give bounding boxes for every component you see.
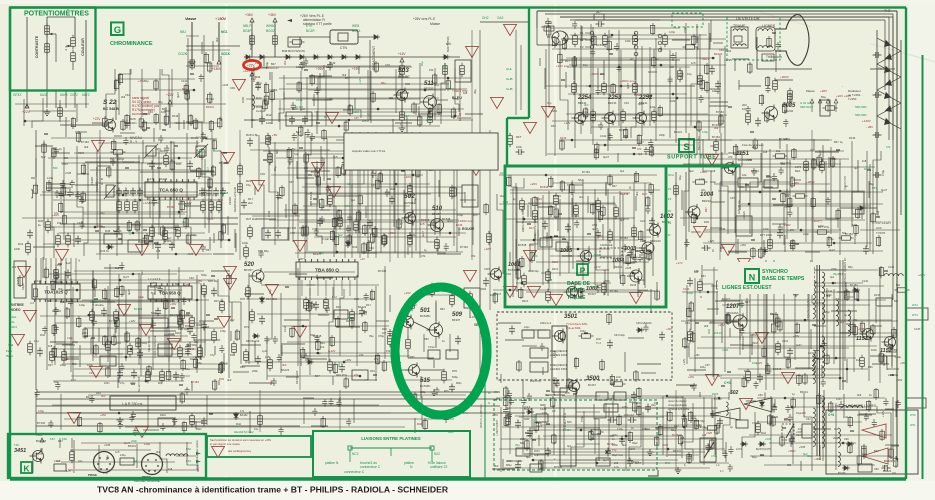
capacitor top row a bbox=[596, 21, 605, 27]
wire 509 col bbox=[435, 300, 437, 323]
cluster S frame bottom bbox=[594, 127, 654, 160]
svg-text:SELECT 50/5: SELECT 50/5 bbox=[138, 376, 141, 392]
svg-text:68µ: 68µ bbox=[158, 382, 163, 385]
cluster F pass2 bbox=[255, 129, 472, 254]
triangle tp23 bbox=[18, 266, 31, 277]
capacitor right of TBA a bbox=[211, 288, 217, 297]
box J low bbox=[352, 370, 368, 380]
svg-text:WHBO: WHBO bbox=[266, 24, 276, 28]
resistor 1004 col bbox=[674, 183, 679, 198]
wire vertical bus x298 bbox=[297, 132, 299, 258]
capacitor O frame bbox=[882, 465, 891, 471]
green support-tube vertical overlay bbox=[528, 8, 530, 119]
svg-text:0µ47: 0µ47 bbox=[603, 155, 610, 159]
wire vertical bus x345 bbox=[344, 132, 346, 258]
wire right of P frame bbox=[675, 172, 677, 260]
svg-text:P: P bbox=[580, 266, 586, 276]
resistor I low b bbox=[62, 349, 67, 364]
wire bus y218 bbox=[100, 217, 238, 219]
wire right bundle line 1 bbox=[896, 11, 898, 460]
svg-text:1µF: 1µF bbox=[66, 261, 71, 265]
inductor flyback winding 3 bbox=[822, 396, 825, 448]
wire couleur right bbox=[85, 20, 87, 90]
resistor right col b bbox=[788, 88, 793, 103]
wire mesh center F bbox=[259, 135, 473, 257]
svg-text:470µ: 470µ bbox=[453, 97, 459, 101]
svg-text:6A3X: 6A3X bbox=[40, 93, 49, 97]
svg-text:R136: R136 bbox=[203, 325, 210, 329]
svg-text:+12V: +12V bbox=[564, 121, 571, 125]
svg-text:ZERO: ZERO bbox=[90, 176, 94, 185]
capacitor N right b bbox=[645, 404, 651, 413]
svg-text:BY184: BY184 bbox=[460, 245, 468, 249]
svg-text:R44: R44 bbox=[645, 427, 650, 431]
svg-text:C204: C204 bbox=[269, 88, 276, 92]
green frame K magnetoscope box bbox=[8, 434, 206, 478]
svg-text:GA2: GA2 bbox=[497, 16, 504, 20]
wire W5 bbox=[240, 45, 480, 47]
svg-text:C97: C97 bbox=[806, 418, 811, 421]
svg-text:R17: R17 bbox=[565, 59, 570, 63]
out tri 1 bbox=[862, 424, 886, 438]
green border left line bbox=[9, 8, 11, 480]
resistor left col c bbox=[66, 233, 71, 248]
value label cluster zone 2 bbox=[260, 130, 478, 258]
wire long bus y392 bbox=[36, 391, 500, 393]
box 12µs b bbox=[538, 330, 550, 338]
svg-text:39µ: 39µ bbox=[515, 443, 520, 447]
box 2k2 K frame bbox=[54, 464, 66, 471]
svg-text:+26V vers PL.E: +26V vers PL.E bbox=[413, 17, 435, 21]
svg-text:unifilaire 22: unifilaire 22 bbox=[430, 465, 447, 469]
resistor IC left x127 bbox=[125, 199, 130, 214]
wire from CTN bbox=[358, 36, 372, 38]
resistor P frame x598 bbox=[596, 198, 601, 213]
wire W2 bbox=[75, 16, 86, 18]
junction 509 base bbox=[435, 329, 437, 331]
svg-text:BC548: BC548 bbox=[773, 367, 782, 371]
dashed switch box O bbox=[782, 424, 794, 440]
transistor 1004 right bbox=[627, 268, 642, 284]
cluster density A2 bbox=[118, 39, 213, 131]
inductor K frame out bbox=[166, 454, 188, 456]
svg-text:+36V: +36V bbox=[344, 204, 350, 208]
svg-text:22n: 22n bbox=[810, 148, 815, 152]
capacitor 2085 bbox=[755, 118, 761, 127]
capacitor 3501 right bbox=[659, 332, 665, 341]
triangle tp41 bbox=[738, 258, 751, 269]
svg-text:3k3: 3k3 bbox=[834, 427, 839, 431]
box R110 bbox=[158, 418, 174, 426]
wire IC pin drop x180 bbox=[179, 197, 181, 218]
green liaison drop left bbox=[349, 450, 351, 462]
svg-text:+5V8: +5V8 bbox=[187, 252, 194, 256]
capacitor relief bbox=[137, 350, 143, 359]
svg-text:220p: 220p bbox=[659, 133, 665, 137]
resistor video out x635 bbox=[633, 33, 638, 48]
svg-text:BY184: BY184 bbox=[716, 110, 724, 114]
svg-text:2017: 2017 bbox=[596, 338, 602, 341]
wire bus y120 tile B bbox=[244, 119, 420, 121]
green frame support-tube vertical 2 bbox=[506, 118, 508, 166]
svg-text:BD131: BD131 bbox=[313, 252, 321, 256]
capacitor N right a bbox=[631, 392, 637, 401]
svg-text:B47: B47 bbox=[117, 181, 122, 185]
svg-text:R03: R03 bbox=[707, 329, 711, 334]
resistor right of TBA a bbox=[202, 283, 207, 298]
svg-text:COULEUR: COULEUR bbox=[81, 38, 85, 56]
resistor below IC c bbox=[176, 225, 181, 240]
resistor F mid d bbox=[382, 233, 387, 248]
svg-text:1µ: 1µ bbox=[513, 197, 516, 201]
transistor S22 BC548B bbox=[102, 118, 116, 133]
svg-text:K3: K3 bbox=[580, 45, 584, 49]
DIN pin magnetophone bbox=[148, 470, 150, 472]
green box G redraw bbox=[111, 22, 124, 35]
svg-text:560: 560 bbox=[567, 420, 572, 424]
diode supply row x344 bbox=[340, 55, 348, 60]
cluster below TCA650 bbox=[118, 216, 236, 259]
capacitor I a bbox=[65, 270, 71, 279]
svg-text:120µ: 120µ bbox=[650, 105, 656, 109]
FREQUENCE LIGNES 625L box bbox=[530, 362, 548, 372]
svg-text:47k: 47k bbox=[728, 155, 733, 159]
svg-text:303F: 303F bbox=[524, 418, 530, 421]
wire GH2 bus bbox=[480, 21, 530, 23]
capacitor in filter F b bbox=[275, 230, 281, 239]
resistor video out x605 bbox=[603, 33, 608, 48]
svg-text:R67: R67 bbox=[639, 140, 644, 144]
resistor 1151 base bbox=[714, 139, 719, 154]
svg-text:47k: 47k bbox=[886, 145, 891, 149]
svg-text:R204: R204 bbox=[709, 87, 716, 91]
resistor h mid a bbox=[804, 159, 809, 174]
wire W1 bbox=[27, 16, 47, 18]
svg-text:1k8: 1k8 bbox=[862, 159, 867, 163]
svg-text:BC558B: BC558B bbox=[738, 158, 749, 162]
svg-text:+12V: +12V bbox=[724, 58, 731, 62]
svg-text:R17: R17 bbox=[251, 77, 256, 81]
blank patch top of tile A bbox=[98, 10, 220, 23]
svg-text:3451: 3451 bbox=[14, 448, 26, 454]
green liaison drop right redraw bbox=[431, 450, 433, 462]
tripler diode 7 bbox=[877, 116, 901, 129]
svg-text:B2X7S(5V): B2X7S(5V) bbox=[249, 35, 253, 50]
cluster I pass2 bbox=[42, 268, 231, 374]
svg-text:R204: R204 bbox=[712, 392, 719, 396]
trimmer niveau R-Y bbox=[146, 146, 156, 156]
wire 2253 drop bbox=[603, 60, 605, 80]
svg-text:1k8: 1k8 bbox=[763, 150, 768, 154]
svg-text:+28V: +28V bbox=[820, 89, 827, 93]
svg-text:100k: 100k bbox=[242, 241, 249, 245]
svg-text:des oscillogrammes: des oscillogrammes bbox=[228, 449, 252, 453]
capacitor O c bbox=[789, 436, 795, 445]
wire THT to horn bbox=[770, 56, 782, 58]
svg-text:+16V env.: +16V env. bbox=[556, 64, 570, 68]
svg-text:+26V: +26V bbox=[100, 413, 106, 417]
inductor flyback primary 2 bbox=[813, 350, 815, 384]
svg-text:BF337: BF337 bbox=[452, 318, 461, 322]
box delay line driver bbox=[128, 240, 142, 252]
svg-text:NBLP: NBLP bbox=[243, 24, 251, 28]
box N right c bbox=[604, 404, 618, 412]
capacitor O b bbox=[717, 418, 723, 427]
connector pin circle2 y47 bbox=[634, 45, 638, 49]
resistor below TDA a bbox=[90, 309, 95, 324]
svg-text:220µ: 220µ bbox=[60, 363, 66, 367]
svg-text:1µ: 1µ bbox=[689, 454, 692, 458]
wire inside ellipse top bbox=[415, 294, 460, 296]
capacitor I low d bbox=[131, 370, 137, 379]
value label cluster zone 5 bbox=[678, 130, 891, 252]
svg-text:B47: B47 bbox=[296, 130, 301, 134]
svg-text:10µ: 10µ bbox=[268, 289, 272, 294]
triangle tp26 bbox=[140, 324, 153, 335]
blank patch right of CRT bbox=[812, 20, 870, 86]
resistor 511 collector bbox=[443, 63, 448, 78]
transistor 510 BF337 bbox=[428, 217, 444, 234]
svg-text:470µ: 470µ bbox=[457, 213, 463, 217]
green box K bbox=[21, 462, 32, 473]
svg-text:820p: 820p bbox=[456, 382, 462, 385]
wire TDA1025 pin field x36 bbox=[35, 258, 37, 284]
svg-text:BY206: BY206 bbox=[554, 465, 563, 469]
svg-text:3k9: 3k9 bbox=[785, 194, 790, 198]
wire inside support frame left bbox=[515, 30, 517, 115]
svg-text:B47: B47 bbox=[612, 184, 617, 188]
svg-text:connecteur C: connecteur C bbox=[344, 470, 365, 474]
ground below LAR bbox=[117, 417, 124, 424]
svg-text:+5V8: +5V8 bbox=[799, 445, 806, 449]
svg-text:10 µ: 10 µ bbox=[34, 339, 40, 343]
svg-text:Masse: Masse bbox=[430, 22, 440, 26]
svg-text:1k8: 1k8 bbox=[133, 459, 138, 463]
triangle tp32 bbox=[168, 338, 181, 349]
svg-text:68µ: 68µ bbox=[269, 380, 273, 385]
svg-text:GF3X: GF3X bbox=[13, 93, 22, 97]
tripler capacitor y175 bbox=[873, 172, 882, 178]
frame line top inner bbox=[560, 16, 893, 18]
switch box N bbox=[700, 438, 716, 462]
wire mesh L pass2 bbox=[688, 267, 892, 383]
svg-text:C63: C63 bbox=[125, 93, 130, 97]
arrow 36V b bbox=[273, 18, 277, 22]
wire long bus y406 bbox=[36, 405, 500, 407]
svg-text:connecteur C: connecteur C bbox=[360, 465, 381, 469]
L.A.R delay line box bbox=[14, 261, 26, 298]
svg-text:R44: R44 bbox=[529, 243, 534, 247]
svg-text:BY184: BY184 bbox=[81, 140, 89, 144]
wire flyback core b bbox=[819, 265, 821, 456]
svg-text:120µ: 120µ bbox=[79, 303, 85, 307]
svg-text:2+2µH: 2+2µH bbox=[256, 109, 265, 113]
svg-text:2434: 2434 bbox=[62, 162, 68, 166]
svg-text:SOUS-PORTEUSE: SOUS-PORTEUSE bbox=[153, 335, 157, 358]
wire vert 340 drop bbox=[339, 390, 341, 430]
wire to tripler bbox=[840, 207, 877, 209]
resistor 511 emitter bbox=[428, 111, 433, 126]
capacitor J mid right bbox=[395, 360, 401, 369]
wire vert 100 bbox=[99, 130, 101, 260]
svg-text:R136: R136 bbox=[560, 136, 567, 140]
transistor 2252 BD131 bbox=[633, 111, 647, 126]
green border bottom thick line bbox=[10, 477, 906, 480]
cluster density F2 bbox=[256, 129, 476, 258]
tripler capacitor y55 bbox=[873, 52, 882, 58]
wire vertical bus x398 bbox=[397, 132, 399, 258]
svg-text:retour du clavier: retour du clavier bbox=[668, 399, 687, 403]
wire inside ellipse low bbox=[404, 379, 452, 381]
transistor 515 BC548C bbox=[406, 363, 420, 378]
svg-text:R55: R55 bbox=[410, 356, 415, 359]
svg-text:3k3: 3k3 bbox=[315, 274, 319, 279]
cluster left of ellipse bbox=[233, 300, 398, 389]
paper background bottom strip bbox=[0, 481, 935, 500]
wire mesh B pass2 bbox=[260, 65, 473, 124]
cluster density O2 bbox=[760, 390, 899, 471]
triangle tp7 bbox=[524, 122, 537, 133]
svg-text:C139: C139 bbox=[888, 266, 895, 269]
DIN pin magnetoscope bbox=[107, 457, 109, 459]
transistor 501 BC548C bbox=[400, 315, 414, 330]
resistor P frame x522 bbox=[520, 198, 525, 213]
wire top bundle line 2 bbox=[545, 13, 893, 15]
cluster right of 2252 bbox=[699, 92, 792, 127]
wire TDA1025 pin field x71 bbox=[70, 258, 72, 284]
capacitor P frame b bbox=[565, 224, 571, 233]
IC U TCA650Q bbox=[145, 179, 197, 200]
triangle tp35 bbox=[464, 270, 477, 281]
wire mesh E pass2 bbox=[42, 143, 223, 256]
wire couleur upper bbox=[74, 17, 76, 38]
tripler rail left bbox=[876, 30, 878, 215]
svg-text:22n: 22n bbox=[701, 188, 706, 192]
frame line right outer bbox=[896, 11, 898, 460]
svg-text:1 2 3 4 5 6: 1 2 3 4 5 6 bbox=[148, 277, 161, 281]
svg-text:NB3 NbLP: NB3 NbLP bbox=[800, 105, 813, 109]
svg-text:R03: R03 bbox=[405, 82, 410, 86]
svg-text:+36V: +36V bbox=[327, 97, 333, 101]
svg-text:L A R 330 ns: L A R 330 ns bbox=[122, 402, 142, 406]
connector pin circle3 y50 bbox=[658, 48, 662, 52]
svg-text:0µ1: 0µ1 bbox=[649, 148, 654, 152]
triangle tp13 bbox=[190, 244, 203, 255]
svg-text:BY206: BY206 bbox=[764, 392, 767, 400]
svg-text:BA123: BA123 bbox=[113, 229, 122, 233]
svg-text:R44: R44 bbox=[573, 56, 577, 61]
svg-text:1n5: 1n5 bbox=[362, 119, 367, 123]
connector pin circle y33 bbox=[590, 31, 594, 35]
capacitor I mid c bbox=[187, 326, 193, 335]
svg-text:+360V env.: +360V env. bbox=[620, 79, 635, 83]
svg-text:R67: R67 bbox=[206, 248, 211, 252]
wire mesh tile H bbox=[680, 133, 883, 255]
svg-text:LIGNES 625L: LIGNES 625L bbox=[550, 367, 568, 371]
wire 515 base feed bbox=[396, 369, 408, 371]
deflection coil trame box bbox=[731, 27, 748, 48]
svg-text:POTENTIOMÈTRES: POTENTIOMÈTRES bbox=[24, 9, 89, 18]
svg-text:1n5: 1n5 bbox=[565, 391, 570, 395]
svg-text:3k9: 3k9 bbox=[156, 450, 161, 454]
svg-text:LIAISONS ENTRE PLATINES: LIAISONS ENTRE PLATINES bbox=[361, 436, 421, 441]
green frame K overlay bbox=[8, 434, 206, 478]
svg-text:C134: C134 bbox=[683, 287, 690, 291]
svg-text:P1: P1 bbox=[668, 187, 672, 191]
svg-text:22n: 22n bbox=[78, 459, 83, 463]
svg-text:S: S bbox=[700, 295, 702, 299]
svg-text:NC3: NC3 bbox=[352, 452, 359, 456]
svg-text:+26V: +26V bbox=[316, 67, 324, 71]
deflection coil lignes box bbox=[756, 27, 775, 51]
resistor 1001 a bbox=[522, 273, 527, 288]
svg-text:C134: C134 bbox=[296, 98, 303, 102]
svg-text:47µ: 47µ bbox=[210, 353, 215, 357]
capacitor N right d bbox=[628, 417, 637, 423]
svg-text:22n: 22n bbox=[213, 149, 218, 153]
triangle tp 9 blue bbox=[466, 46, 479, 57]
svg-text:120µ: 120µ bbox=[702, 130, 708, 134]
wire TDA753 pin y460 bbox=[576, 459, 600, 461]
svg-text:schéma 929 partie: schéma 929 partie bbox=[668, 407, 690, 411]
cluster right of TDA753 bbox=[658, 418, 733, 472]
svg-text:2044: 2044 bbox=[534, 450, 540, 453]
resistor 510 emitter bbox=[435, 237, 440, 252]
wire inside support frame left 2 bbox=[520, 45, 522, 110]
svg-text:BD131: BD131 bbox=[553, 194, 561, 198]
transistor 1151 bbox=[722, 161, 736, 176]
svg-text:R136: R136 bbox=[864, 167, 871, 171]
capacitor IC left x133 bbox=[130, 188, 136, 197]
svg-text:C13P: C13P bbox=[914, 328, 921, 331]
green liaison node left redraw bbox=[348, 446, 352, 450]
svg-text:BC548: BC548 bbox=[313, 334, 322, 338]
svg-text:47µ: 47µ bbox=[612, 448, 617, 452]
svg-text:+36V: +36V bbox=[155, 147, 161, 151]
resistor I low a bbox=[50, 349, 55, 364]
svg-text:B2A: B2A bbox=[795, 169, 800, 173]
filter box R24 2x2 bbox=[286, 112, 312, 126]
resistor 1152 base bbox=[860, 355, 865, 370]
svg-text:82µ: 82µ bbox=[158, 100, 163, 104]
capacitor IC left x140 bbox=[137, 188, 143, 197]
green frame base-de-temps overlay bbox=[505, 166, 666, 307]
svg-text:15k: 15k bbox=[471, 254, 476, 258]
capacitor R28 6u8 bbox=[247, 138, 253, 147]
tripler diode 2 bbox=[877, 51, 901, 64]
svg-text:R03: R03 bbox=[195, 143, 199, 148]
wire vertical bus x305 bbox=[304, 132, 306, 258]
wire mesh bottom right bbox=[742, 393, 893, 471]
triangle tp29 bbox=[224, 266, 237, 277]
svg-text:BD131: BD131 bbox=[198, 150, 206, 154]
diode 3501 right bbox=[636, 328, 644, 333]
wire TBA850 pin drop x350 bbox=[349, 280, 351, 296]
svg-text:+36V: +36V bbox=[634, 93, 640, 97]
svg-text:R17: R17 bbox=[717, 374, 722, 378]
capacitor N b bbox=[527, 428, 533, 437]
svg-text:1k8: 1k8 bbox=[463, 91, 468, 95]
svg-text:R204: R204 bbox=[573, 214, 580, 218]
svg-text:4µ7: 4µ7 bbox=[840, 320, 845, 324]
green frame support-tube bottom thick line bbox=[504, 165, 740, 168]
cluster left edge mid bbox=[18, 158, 98, 204]
capacitor 3500 in bbox=[553, 378, 559, 387]
resistor 1k3 below contraste bbox=[45, 41, 50, 56]
svg-text:T45: T45 bbox=[14, 443, 19, 447]
svg-text:TVC8 AN -chrominance à identi: TVC8 AN -chrominance à identification tr… bbox=[97, 485, 449, 495]
svg-text:15k: 15k bbox=[589, 436, 594, 440]
